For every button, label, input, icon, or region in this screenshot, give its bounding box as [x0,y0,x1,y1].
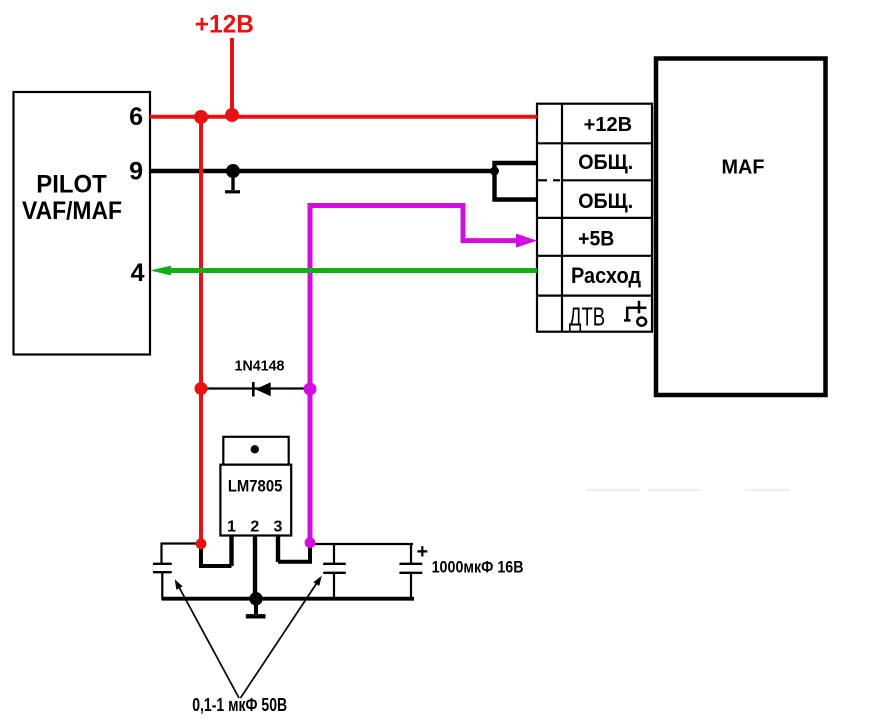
LM7805 body [220,465,291,536]
connector table row line 5 [537,295,652,297]
svg-text:9: 9 [129,158,143,186]
capacitor C2 lead bottom [333,574,335,600]
svg-text:4: 4 [131,259,145,287]
LM7805 pin 2 lead [253,536,257,600]
LM7805 tab [223,437,288,465]
capacitor network: top rail right [310,543,413,545]
capacitor C1 lead bottom [161,573,163,600]
capacitor C3 lead bottom [410,574,412,600]
annotation arrow to C2 [241,579,320,699]
connector table row line 1 [537,142,652,144]
svg-text:+5В: +5В [578,228,614,251]
svg-text:6: 6 [129,103,143,131]
box MAF [656,59,826,396]
svg-text:1: 1 [227,519,236,536]
bottom ground rail [162,597,415,601]
wire red +12V horizontal [150,115,537,119]
svg-text:1000мкФ 16В: 1000мкФ 16В [432,558,524,577]
svg-text:+: + [417,541,429,563]
junction magenta at diode [304,383,317,396]
capacitor C1 lead top [160,543,162,564]
ground tap on pin9 wire [226,164,240,178]
svg-text:+12В: +12В [195,10,254,38]
svg-text:1N4148: 1N4148 [235,358,285,375]
connector table inner column line [561,104,563,332]
svg-text:2: 2 [250,519,259,536]
junction magenta at capacitor rail [305,537,316,548]
wire pin9 black to connector [150,169,494,173]
box PILOT VAF/MAF [14,92,151,355]
LM7805 pin 3 lead [276,536,280,563]
capacitor C3 plates [399,563,422,565]
wire +12V feed vertical [230,38,234,116]
connector table outline [537,104,652,332]
ground symbol [254,599,258,614]
wire magenta +5V [310,206,519,544]
svg-text:LM7805: LM7805 [228,477,283,496]
junction red at pin6 [194,110,208,124]
magenta arrowhead into +5V terminal [516,234,537,248]
svg-text:+12В: +12В [584,114,633,136]
svg-text:PILOT: PILOT [36,170,107,198]
capacitor C3 lead top [410,544,412,563]
wire red vertical leg [199,117,203,544]
capacitor network: top rail left [162,542,202,544]
diode 1N4148 [252,382,255,397]
svg-text:VAF/MAF: VAF/MAF [22,197,122,225]
faint watermark [586,489,790,491]
DTV sensor hand-drawn symbol [624,301,646,326]
capacitor C1 plates [153,563,172,565]
connector table row line 3 [537,217,652,219]
connector table row line 4 [537,255,652,257]
capacitor C2 lead top [333,544,335,563]
wire green Raskhod [168,268,537,273]
green arrowhead into pin 4 [150,266,171,276]
svg-text:0,1-1 мкФ 50В: 0,1-1 мкФ 50В [192,695,287,715]
svg-text:ДТВ: ДТВ [569,301,605,331]
capacitor C2 plates [323,563,346,565]
svg-text:ОБЩ.: ОБЩ. [578,151,633,174]
connector table row line 2 (dashed in narrow column) [562,179,652,181]
junction red at +12V feed [225,108,239,122]
junction black loop [490,167,499,176]
junction red at capacitor rail [196,538,207,549]
junction red at diode [195,382,208,395]
wire output U-link (pin3 to magenta node) [278,543,310,562]
LM7805 pin 1 lead [229,536,233,567]
wire input U-link (red node to pin1) [201,544,232,566]
svg-text:ОБЩ.: ОБЩ. [578,190,633,213]
wire black loop to OBSch terminals [495,163,538,200]
diode 1N4148 wire [201,387,310,389]
svg-text:3: 3 [274,519,283,536]
LM7805 mounting hole [251,445,259,453]
annotation arrow to C1 [177,583,240,699]
ground node dot [249,592,262,605]
svg-text:MAF: MAF [722,157,765,179]
svg-text:Расход: Расход [571,263,641,288]
